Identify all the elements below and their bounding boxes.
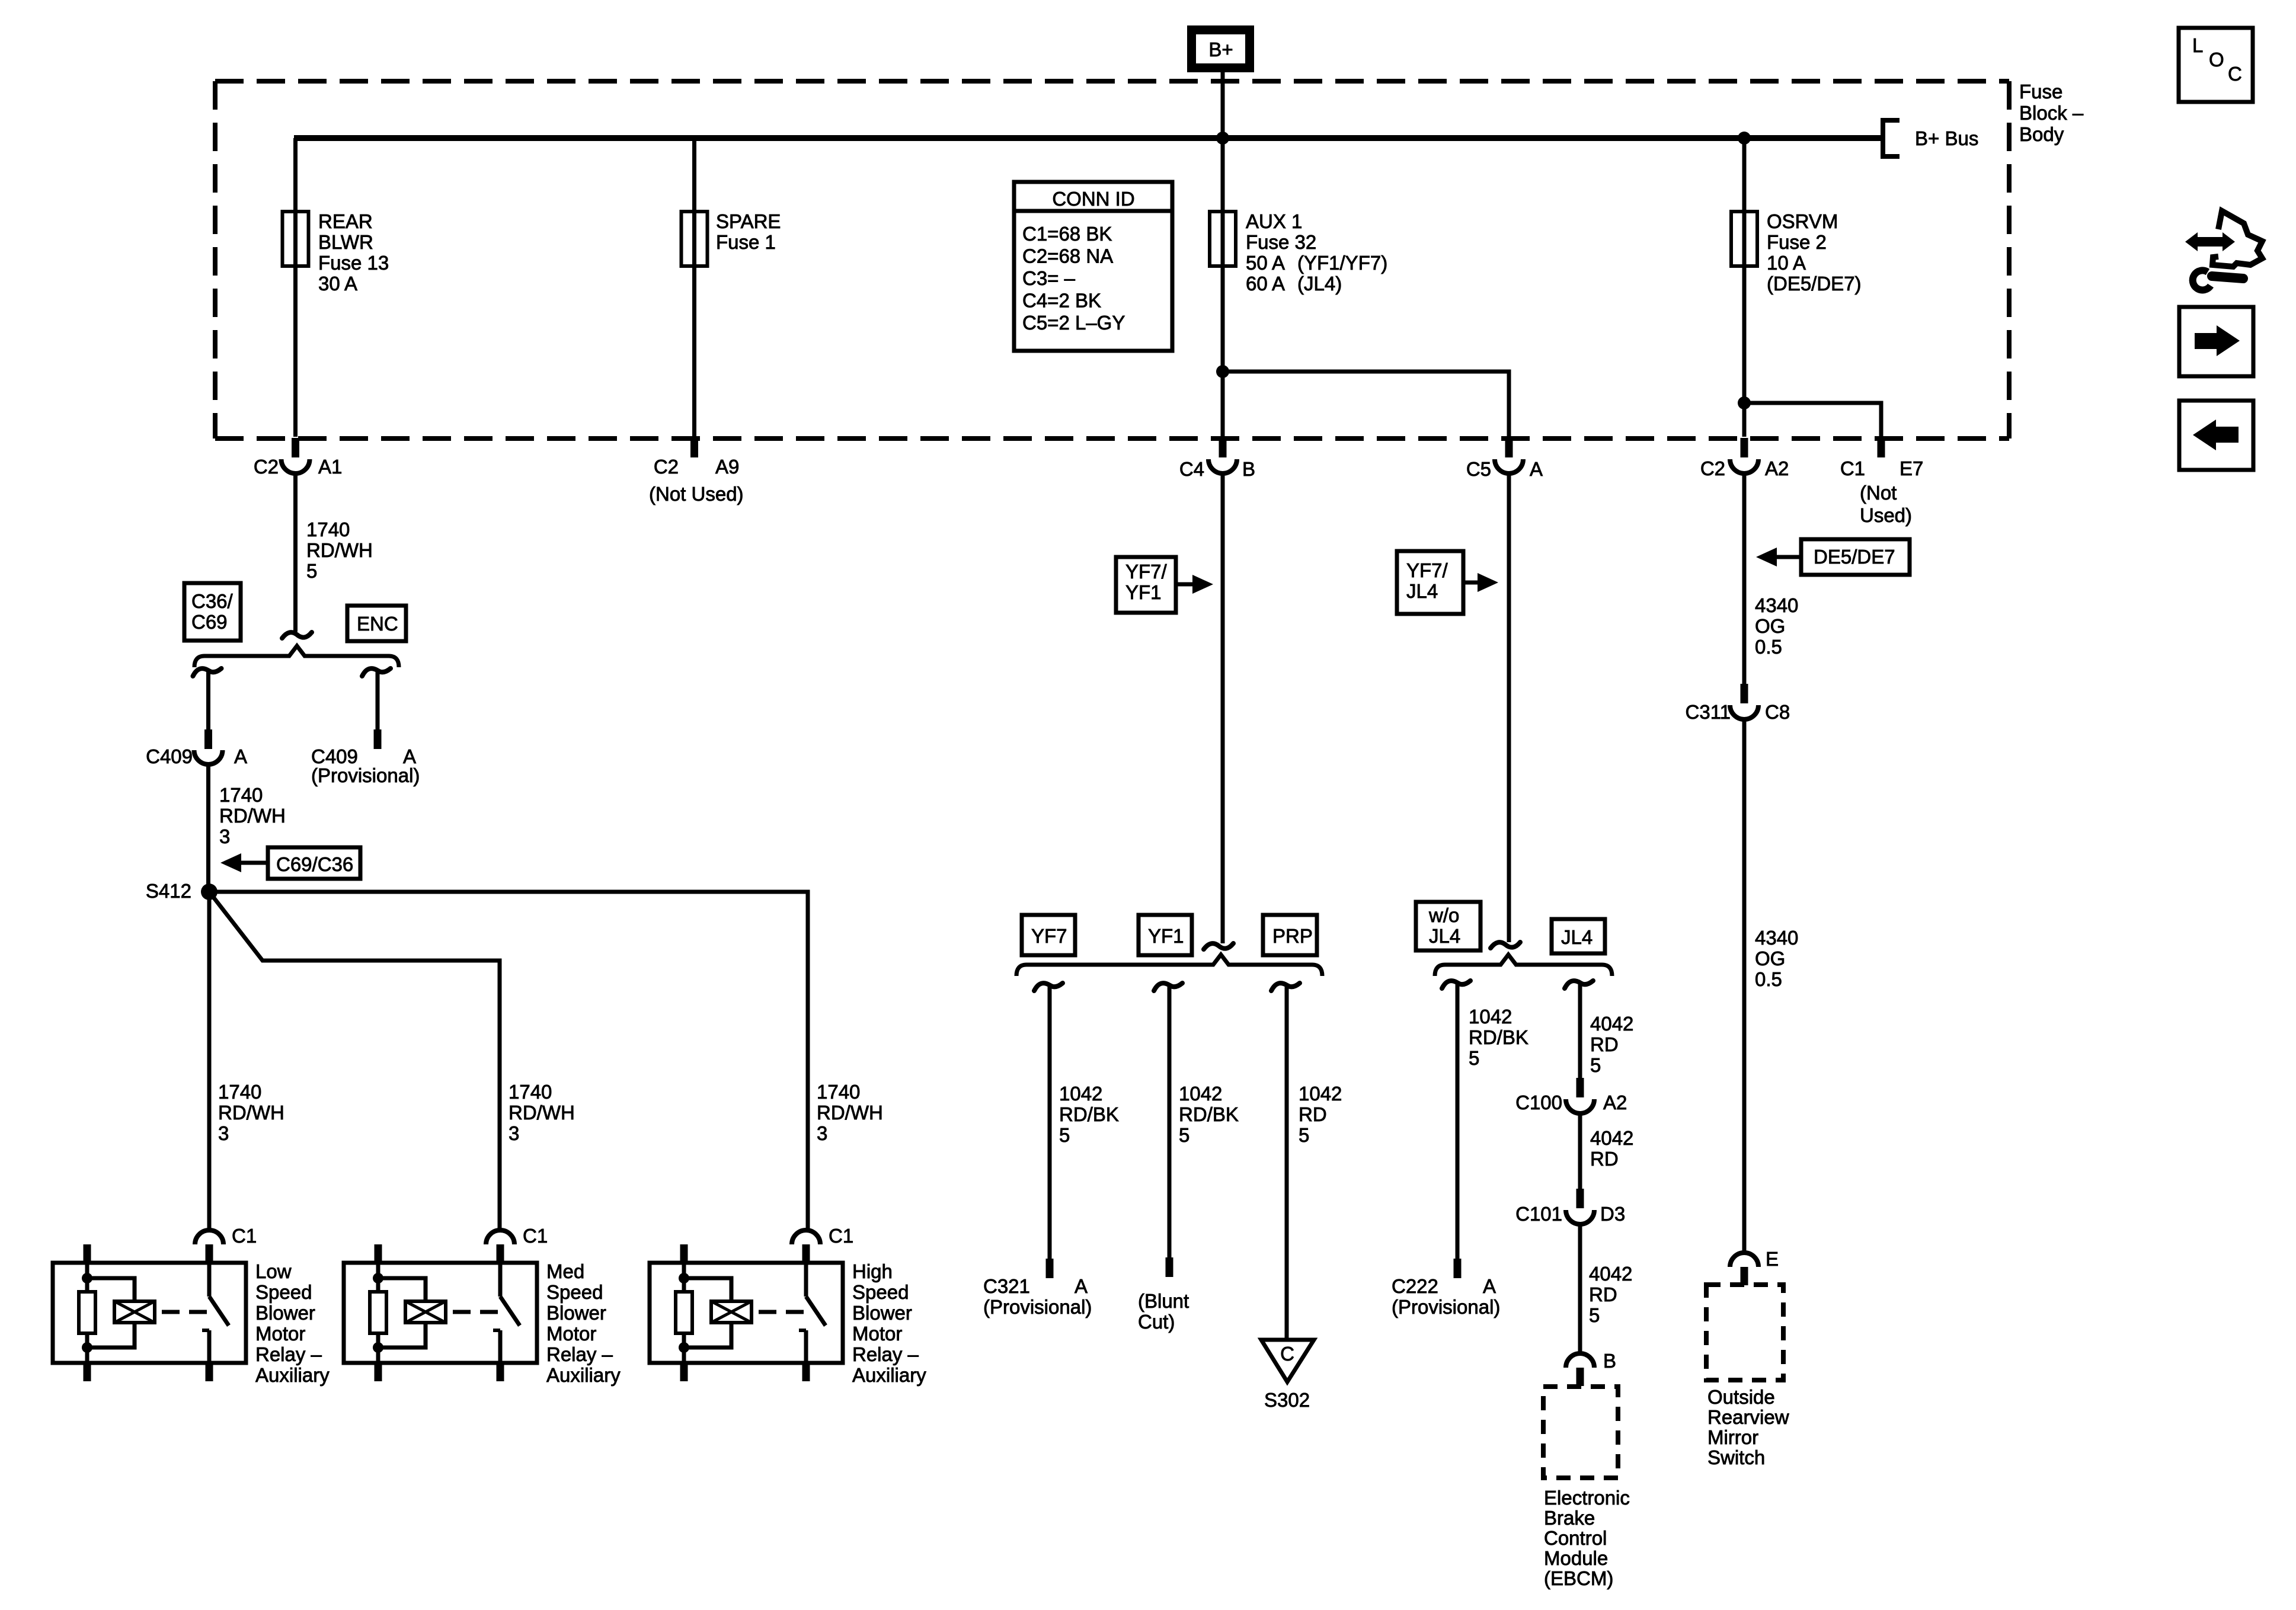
B+ bus wire — [294, 135, 1883, 141]
wire 4042 RD 5 to EBCM pin B — [1578, 1224, 1582, 1355]
svg-text:1740: 1740 — [509, 1081, 552, 1103]
svg-text:5: 5 — [1059, 1124, 1070, 1146]
wire 1740 RD/WH 5 from C2-A1 — [293, 472, 298, 632]
label box C36/C69 — [184, 583, 241, 641]
label box YF7 — [1022, 915, 1075, 955]
svg-text:S412: S412 — [146, 880, 191, 902]
label box PRP — [1263, 915, 1317, 955]
svg-text:O: O — [2209, 49, 2224, 71]
svg-text:C: C — [1280, 1343, 1294, 1365]
svg-text:60 A: 60 A — [1246, 273, 1285, 295]
svg-text:5: 5 — [1589, 1304, 1600, 1326]
wire 1042 RD/BK 5 to C222 — [1456, 984, 1460, 1259]
lead hook C409 A left — [193, 668, 222, 676]
svg-text:Relay –: Relay – — [255, 1343, 322, 1365]
svg-text:A: A — [1530, 458, 1543, 480]
lead hook C409 provisional — [362, 668, 391, 676]
connector C1 pin E7 (not used) — [1878, 438, 1885, 457]
svg-text:(Provisional): (Provisional) — [1392, 1296, 1500, 1318]
svg-text:C: C — [2228, 63, 2242, 85]
svg-text:C321: C321 — [983, 1275, 1030, 1297]
label box DE5/DE7 with arrow — [1801, 539, 1910, 575]
wire break at harness transition — [282, 632, 312, 638]
svg-text:L: L — [2192, 34, 2203, 56]
svg-text:Speed: Speed — [255, 1281, 312, 1303]
svg-text:RD/WH: RD/WH — [219, 805, 286, 827]
svg-text:A: A — [1483, 1275, 1496, 1297]
svg-text:YF1: YF1 — [1148, 925, 1184, 947]
svg-text:RD: RD — [1590, 1033, 1619, 1055]
svg-text:(YF1/YF7): (YF1/YF7) — [1297, 252, 1387, 274]
svg-text:1042: 1042 — [1299, 1083, 1342, 1105]
svg-text:Outside: Outside — [1707, 1386, 1775, 1408]
fuse F2 OSRVM 10A, wire from bus to C2-A2 — [1742, 138, 1747, 437]
B+ terminal box — [1187, 25, 1254, 72]
svg-text:Fuse 1: Fuse 1 — [716, 231, 776, 253]
fuse block body dashed outline — [215, 81, 2009, 438]
lead hook YF7 wire — [1034, 983, 1063, 991]
svg-text:3: 3 — [219, 825, 230, 847]
svg-text:Blower: Blower — [546, 1302, 606, 1324]
svg-text:D3: D3 — [1600, 1203, 1625, 1225]
svg-text:4340: 4340 — [1755, 927, 1798, 949]
svg-text:C4=2 BK: C4=2 BK — [1022, 290, 1101, 312]
svg-text:JL4: JL4 — [1561, 926, 1593, 948]
svg-text:Blower: Blower — [852, 1302, 912, 1324]
svg-text:Auxiliary: Auxiliary — [255, 1364, 330, 1386]
svg-text:YF7: YF7 — [1031, 925, 1067, 947]
label box YF1 — [1139, 915, 1192, 955]
svg-text:Control: Control — [1544, 1527, 1607, 1549]
wire 4042 RD to C101 — [1578, 1113, 1582, 1190]
wire break above brace — [1204, 943, 1233, 949]
svg-text:A: A — [234, 745, 247, 767]
svg-text:Switch: Switch — [1707, 1446, 1765, 1468]
svg-text:4340: 4340 — [1755, 594, 1798, 616]
svg-text:C69/C36: C69/C36 — [276, 853, 353, 875]
connector C311 pin C8 — [1741, 684, 1748, 703]
forward reference arrow box — [2179, 307, 2253, 376]
svg-text:Mirror: Mirror — [1707, 1426, 1758, 1448]
harness option brace (YF7 | YF1 | PRP) — [1016, 955, 1322, 976]
svg-text:SPARE: SPARE — [716, 210, 781, 232]
connector pin B at EBCM — [1566, 1353, 1594, 1368]
wire B+ to bus — [1221, 72, 1225, 138]
svg-text:C1=68 BK: C1=68 BK — [1022, 223, 1112, 245]
connector C409 pin A — [204, 729, 212, 749]
svg-text:1740: 1740 — [306, 518, 350, 540]
svg-text:RD/WH: RD/WH — [817, 1102, 883, 1124]
lead hook JL4 wire — [1565, 981, 1593, 988]
svg-text:1042: 1042 — [1469, 1006, 1512, 1028]
svg-text:A2: A2 — [1765, 457, 1789, 479]
svg-text:C409: C409 — [146, 745, 193, 767]
svg-text:Used): Used) — [1860, 504, 1912, 526]
svg-text:30 A: 30 A — [318, 273, 357, 295]
connector C100 pin A2 — [1576, 1078, 1584, 1097]
svg-text:1042: 1042 — [1179, 1083, 1222, 1105]
svg-text:C100: C100 — [1515, 1092, 1562, 1113]
svg-text:RD/WH: RD/WH — [509, 1102, 575, 1124]
svg-text:RD: RD — [1299, 1103, 1327, 1125]
svg-text:(Provisional): (Provisional) — [311, 764, 420, 786]
svg-text:RD: RD — [1589, 1283, 1617, 1305]
svg-text:Brake: Brake — [1544, 1507, 1595, 1529]
svg-text:50 A: 50 A — [1246, 252, 1285, 274]
svg-text:5: 5 — [1469, 1047, 1479, 1069]
svg-text:C2: C2 — [1700, 457, 1725, 479]
svg-text:B: B — [1603, 1350, 1616, 1372]
wire 4042 RD 5 to C100 — [1578, 984, 1582, 1078]
connector C4 pin B — [1219, 438, 1227, 457]
svg-text:C222: C222 — [1392, 1275, 1438, 1297]
svg-text:OSRVM: OSRVM — [1767, 210, 1838, 232]
svg-text:High: High — [852, 1260, 893, 1282]
svg-text:YF7/: YF7/ — [1406, 559, 1448, 581]
svg-text:5: 5 — [1590, 1054, 1601, 1076]
svg-text:10 A: 10 A — [1767, 252, 1806, 274]
svg-text:BLWR: BLWR — [318, 231, 373, 253]
wire 1042 RD/BK 5 to C321 — [1048, 986, 1052, 1259]
svg-text:S302: S302 — [1264, 1389, 1310, 1411]
label box w/o JL4 — [1416, 902, 1480, 950]
svg-text:1740: 1740 — [817, 1081, 860, 1103]
svg-text:C101: C101 — [1515, 1203, 1562, 1225]
connector C321 pin A provisional — [1046, 1259, 1054, 1278]
svg-text:0.5: 0.5 — [1755, 636, 1782, 658]
svg-text:(EBCM): (EBCM) — [1544, 1567, 1613, 1589]
svg-text:YF1: YF1 — [1125, 581, 1162, 603]
relay - Low Speed Blower Motor Relay Auxiliary, connector C1 — [53, 1225, 257, 1381]
svg-text:C69: C69 — [191, 611, 228, 633]
splice pack S302 — [1261, 1340, 1314, 1382]
backward reference arrow box — [2179, 401, 2253, 470]
svg-text:Med: Med — [546, 1260, 584, 1282]
svg-text:Low: Low — [255, 1260, 292, 1282]
svg-text:RD/WH: RD/WH — [306, 539, 373, 561]
svg-text:(Provisional): (Provisional) — [983, 1296, 1092, 1318]
svg-text:RD/BK: RD/BK — [1469, 1026, 1528, 1048]
lead hook YF1 wire — [1154, 983, 1182, 991]
wire OSRVM branch to C1-E7 — [1738, 396, 1751, 409]
svg-text:w/o: w/o — [1428, 904, 1459, 926]
blunt cut wire end — [1166, 1257, 1173, 1277]
svg-text:3: 3 — [509, 1122, 519, 1144]
junction node on bus at AUX1 — [1216, 132, 1229, 145]
svg-text:4042: 4042 — [1590, 1127, 1633, 1149]
svg-text:Rearview: Rearview — [1707, 1406, 1789, 1428]
svg-text:Fuse 32: Fuse 32 — [1246, 231, 1316, 253]
svg-text:JL4: JL4 — [1406, 580, 1438, 602]
svg-text:5: 5 — [1299, 1124, 1309, 1146]
wire 4340 OG 0.5 from C2-A2 — [1742, 472, 1747, 684]
fuse F13 REAR BLWR 30A, wire from bus to C2-A1 — [293, 138, 298, 437]
svg-text:Body: Body — [2019, 123, 2064, 145]
lead hook w/o JL4 wire — [1442, 981, 1470, 988]
svg-text:Speed: Speed — [546, 1281, 603, 1303]
svg-text:Fuse 13: Fuse 13 — [318, 252, 389, 274]
svg-text:5: 5 — [306, 560, 317, 582]
wire AUX1 branch to C5 — [1216, 365, 1229, 378]
svg-text:RD/BK: RD/BK — [1179, 1103, 1239, 1125]
wire 4340 OG 0.5 to ORVM switch — [1742, 719, 1747, 1254]
svg-text:E: E — [1766, 1248, 1779, 1270]
svg-text:C2: C2 — [654, 456, 679, 478]
svg-text:Auxiliary: Auxiliary — [546, 1364, 621, 1386]
svg-text:Cut): Cut) — [1138, 1311, 1175, 1333]
svg-text:5: 5 — [1179, 1124, 1189, 1146]
svg-text:Auxiliary: Auxiliary — [852, 1364, 926, 1386]
relay - High Speed Blower Motor Relay Auxiliary, connector C1 — [650, 1225, 853, 1381]
svg-text:YF7/: YF7/ — [1125, 561, 1168, 582]
svg-text:RD/BK: RD/BK — [1059, 1103, 1119, 1125]
svg-text:B+ Bus: B+ Bus — [1915, 127, 1978, 149]
svg-text:Relay –: Relay – — [852, 1343, 919, 1365]
fuse F32 AUX 1, wire from bus to C4-B — [1221, 138, 1225, 437]
svg-text:RD/WH: RD/WH — [218, 1102, 284, 1124]
Electronic Brake Control Module dashed box — [1543, 1387, 1618, 1478]
svg-text:Block –: Block – — [2019, 102, 2084, 124]
svg-text:4042: 4042 — [1589, 1263, 1632, 1285]
svg-text:Motor: Motor — [255, 1323, 305, 1345]
label box JL4 — [1552, 919, 1605, 953]
svg-text:Electronic: Electronic — [1544, 1487, 1630, 1509]
wire branch B (med speed relay) — [209, 892, 500, 1231]
svg-text:CONN ID: CONN ID — [1052, 188, 1134, 210]
fuse F1 SPARE, wire from bus to C2-A9 — [692, 138, 696, 437]
svg-text:AUX 1: AUX 1 — [1246, 210, 1302, 232]
svg-text:JL4: JL4 — [1429, 925, 1460, 947]
svg-text:C311: C311 — [1686, 701, 1731, 723]
svg-text:C1: C1 — [1840, 457, 1865, 479]
relay - Med Speed Blower Motor Relay Auxiliary, connector C1 — [344, 1225, 548, 1381]
svg-text:A9: A9 — [715, 456, 739, 478]
svg-text:4042: 4042 — [1590, 1013, 1633, 1035]
label box C69/C36 with arrow to wire — [268, 847, 360, 879]
svg-text:1042: 1042 — [1059, 1083, 1102, 1105]
connector pin E at mirror switch — [1730, 1253, 1758, 1267]
svg-text:ENC: ENC — [357, 613, 398, 635]
wire break above brace — [1491, 942, 1520, 948]
svg-text:3: 3 — [817, 1122, 827, 1144]
connector C2 pin A9 (not used) — [690, 438, 698, 457]
svg-text:Fuse 2: Fuse 2 — [1767, 231, 1827, 253]
junction node on bus at OSRVM — [1738, 132, 1751, 145]
LOC reference box — [2179, 28, 2253, 102]
svg-text:PRP: PRP — [1272, 925, 1313, 947]
wire to C409 A provisional (dead end) — [376, 671, 380, 730]
svg-text:(DE5/DE7): (DE5/DE7) — [1767, 273, 1862, 295]
svg-text:(Not Used): (Not Used) — [649, 483, 744, 505]
svg-text:A2: A2 — [1603, 1092, 1627, 1113]
svg-text:RD: RD — [1590, 1148, 1619, 1170]
wire to C409 A — [206, 671, 210, 730]
wire from C5-A down — [1507, 472, 1511, 942]
Outside Rearview Mirror Switch dashed box — [1706, 1285, 1783, 1380]
svg-text:Relay –: Relay – — [546, 1343, 613, 1365]
wire 1042 from C4-B down — [1221, 472, 1225, 943]
svg-text:0.5: 0.5 — [1755, 968, 1782, 990]
B+ bus terminal bracket — [1883, 120, 1900, 156]
splice S412 — [201, 884, 218, 900]
svg-text:REAR: REAR — [318, 210, 373, 232]
connector C5 pin A — [1505, 438, 1513, 457]
svg-text:(Not: (Not — [1860, 482, 1897, 504]
svg-text:C4: C4 — [1179, 458, 1204, 480]
svg-text:E7: E7 — [1900, 457, 1923, 479]
svg-text:(Blunt: (Blunt — [1138, 1290, 1189, 1312]
svg-text:C3= –: C3= – — [1022, 267, 1076, 289]
wire 1740 RD/WH 3 down to S412 — [206, 764, 210, 892]
svg-text:OG: OG — [1755, 615, 1785, 637]
label box ENC — [347, 606, 406, 641]
wire 1042 RD 5 to S302 — [1285, 986, 1289, 1340]
svg-text:C2: C2 — [254, 456, 279, 478]
svg-text:Motor: Motor — [546, 1323, 596, 1345]
service info icon (double arrow, part outline, wrench) — [2185, 211, 2262, 290]
svg-text:C2=68 NA: C2=68 NA — [1022, 245, 1113, 267]
svg-text:Module: Module — [1544, 1547, 1608, 1569]
svg-text:3: 3 — [218, 1122, 229, 1144]
svg-text:Speed: Speed — [852, 1281, 909, 1303]
connector C2 pin A2 — [1741, 438, 1748, 457]
svg-text:C36/: C36/ — [191, 590, 234, 612]
svg-text:Motor: Motor — [852, 1323, 902, 1345]
label box YF7/YF1 with arrow — [1116, 557, 1176, 613]
harness option brace (w/o JL4 | JL4) — [1435, 955, 1612, 976]
svg-text:1740: 1740 — [218, 1081, 261, 1103]
connector C101 pin D3 — [1576, 1189, 1584, 1208]
connector C2 pin A1 (fuse block to body harness) — [292, 438, 299, 457]
svg-text:A: A — [1075, 1275, 1088, 1297]
harness split brace (C36/C69 | ENC) — [194, 646, 399, 667]
svg-text:A1: A1 — [318, 456, 342, 478]
svg-text:B: B — [1242, 458, 1255, 480]
wire branch A (low speed relay) — [207, 892, 212, 1231]
svg-text:C5=2 L–GY: C5=2 L–GY — [1022, 312, 1125, 334]
svg-text:1740: 1740 — [219, 784, 263, 806]
label box YF7/JL4 with arrow — [1397, 551, 1463, 614]
wire branch C (high speed relay) — [209, 892, 808, 1231]
svg-text:Blower: Blower — [255, 1302, 315, 1324]
svg-text:B+: B+ — [1208, 39, 1233, 60]
svg-text:OG: OG — [1755, 948, 1785, 969]
svg-text:DE5/DE7: DE5/DE7 — [1814, 546, 1895, 568]
connector C222 pin A provisional — [1454, 1259, 1462, 1278]
svg-text:Fuse: Fuse — [2019, 81, 2062, 103]
lead hook PRP wire — [1271, 983, 1300, 991]
svg-text:(JL4): (JL4) — [1297, 273, 1342, 295]
svg-text:C8: C8 — [1765, 701, 1790, 723]
svg-text:C5: C5 — [1466, 458, 1491, 480]
wire 1042 RD/BK 5 blunt cut — [1168, 986, 1172, 1259]
CONN ID table — [1014, 182, 1172, 351]
